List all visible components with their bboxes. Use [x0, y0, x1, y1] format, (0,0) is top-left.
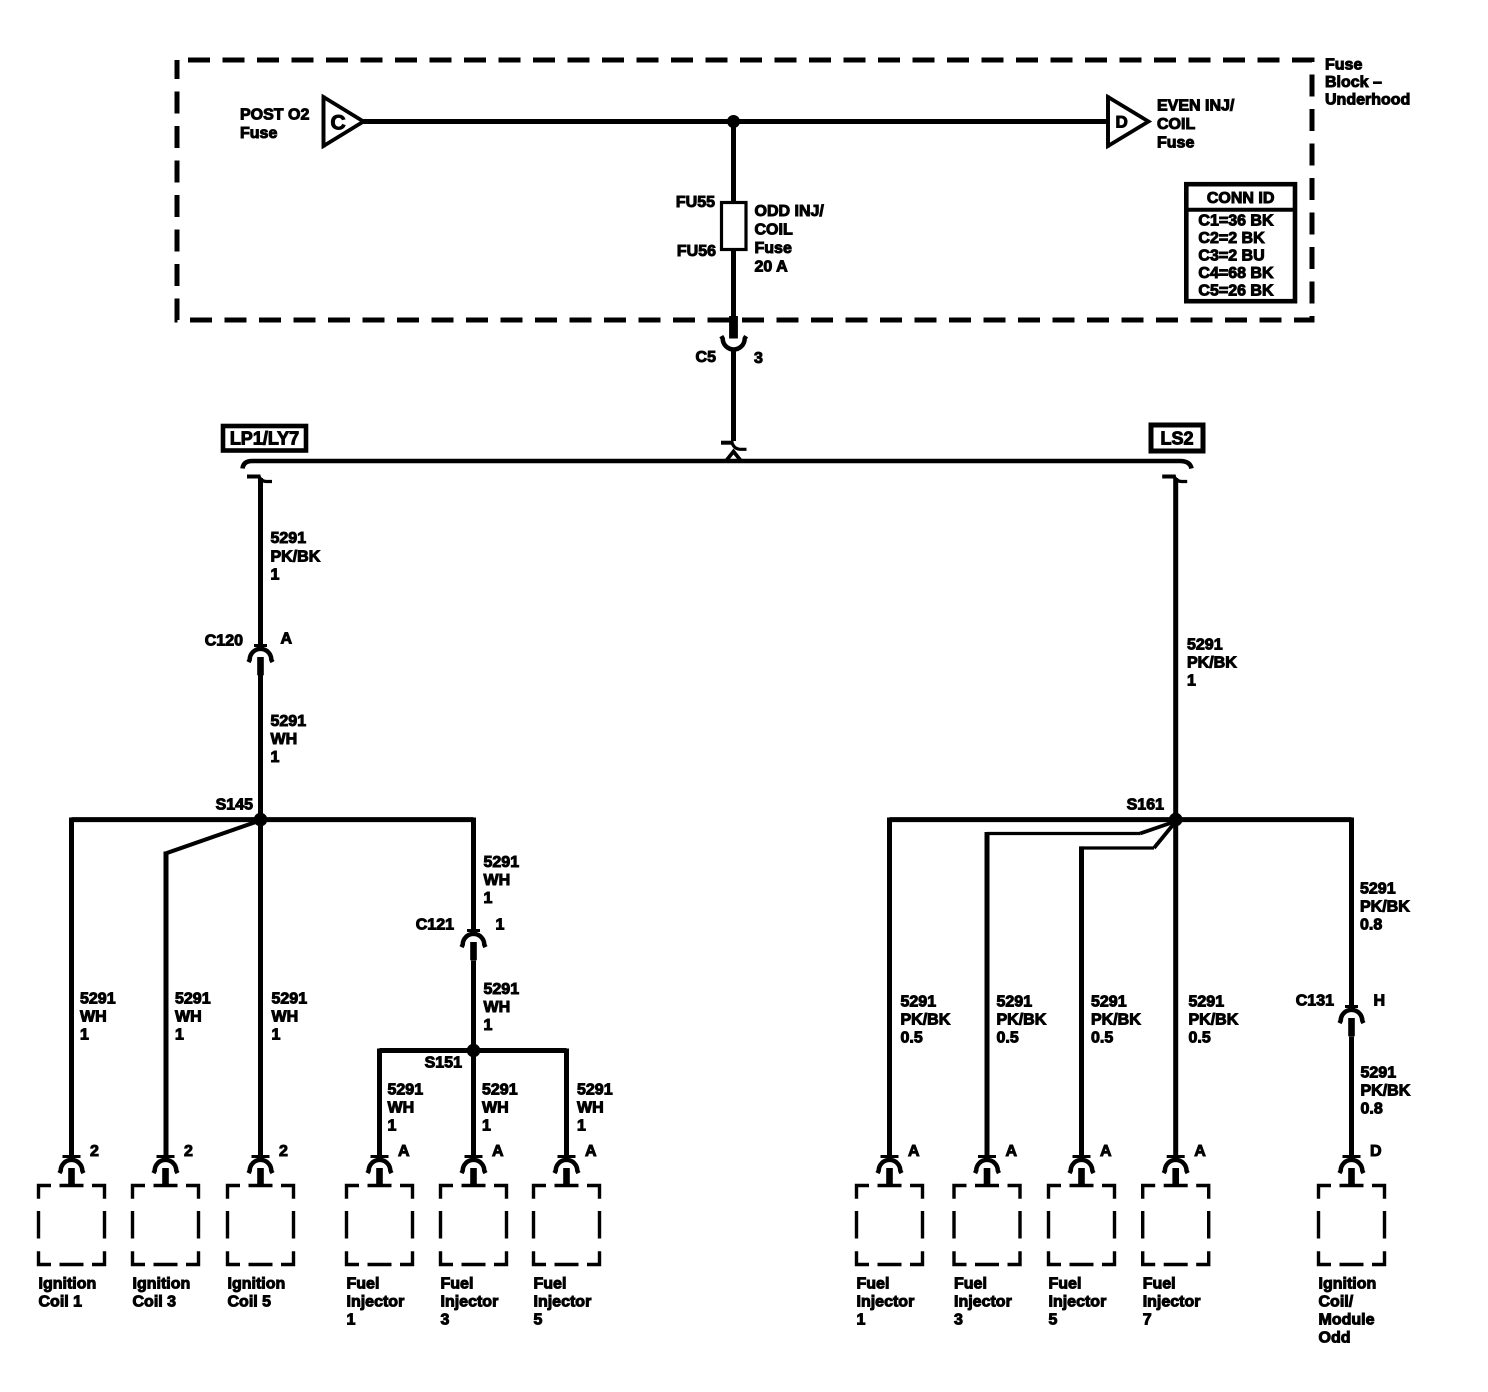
- label fuel injector 3 (left bank): [441, 1276, 499, 1329]
- connector C5 terminal 3: [721, 316, 746, 350]
- connector at ignition coil/module odd: [1340, 1157, 1364, 1187]
- svg-text:5291: 5291: [484, 854, 520, 871]
- svg-text:C3=2 BU: C3=2 BU: [1198, 248, 1264, 265]
- svg-text:FU56: FU56: [677, 243, 716, 260]
- wire: S161 diagonal to fuel injector 5 branch: [1154, 823, 1175, 848]
- svg-text:Underhood: Underhood: [1325, 92, 1410, 109]
- svg-text:LS2: LS2: [1160, 429, 1193, 449]
- label fuel injector 7 (right bank): [1143, 1276, 1201, 1329]
- svg-text:Coil 1: Coil 1: [39, 1294, 83, 1311]
- wire: S161 horizontal to fuel injector 1: [890, 817, 1176, 822]
- svg-text:1: 1: [80, 1026, 89, 1043]
- svg-text:5291: 5291: [272, 990, 308, 1007]
- wire label 5291 PK/BK 0.5: [1091, 994, 1141, 1047]
- svg-text:CONN ID: CONN ID: [1207, 190, 1275, 207]
- svg-text:Fuel: Fuel: [534, 1276, 567, 1293]
- svg-text:Injector: Injector: [954, 1294, 1012, 1311]
- svg-text:A: A: [585, 1143, 597, 1160]
- wire: fuse FU56 to connector C5: [731, 250, 736, 317]
- svg-text:A: A: [1006, 1143, 1018, 1160]
- wire: S161 diagonal to fuel injector 3 branch: [1140, 822, 1174, 834]
- svg-text:PK/BK: PK/BK: [1361, 1083, 1411, 1100]
- wire label 5291 WH 1: [271, 713, 307, 766]
- svg-text:Injector: Injector: [857, 1294, 915, 1311]
- svg-text:Odd: Odd: [1319, 1330, 1351, 1347]
- wire: C131 to ignition coil/module odd (5291 PK/BK): [1349, 1037, 1354, 1157]
- wire: S145 to ignition coil 1: [69, 818, 74, 1157]
- svg-text:1: 1: [496, 916, 505, 933]
- wire: S151 to fuel injector 5: [564, 1049, 569, 1157]
- svg-text:1: 1: [484, 1017, 493, 1034]
- component box ignition coil 3: [133, 1184, 199, 1266]
- wire label 5291 WH 1: [482, 1082, 518, 1135]
- svg-text:S145: S145: [216, 797, 253, 814]
- label fuel injector 1 (left bank): [347, 1276, 405, 1329]
- wire: C5 down to engine harness bus: [731, 352, 736, 442]
- svg-text:Ignition: Ignition: [133, 1276, 191, 1293]
- svg-text:3: 3: [441, 1312, 450, 1329]
- wire: down to fuel injector 1: [887, 818, 892, 1157]
- svg-text:0.8: 0.8: [1361, 1101, 1383, 1118]
- CONN ID table: [1186, 184, 1295, 301]
- svg-text:Coil 3: Coil 3: [133, 1294, 177, 1311]
- svg-text:Module: Module: [1319, 1312, 1375, 1329]
- label ignition coil/module odd: [1319, 1276, 1377, 1347]
- svg-text:0.5: 0.5: [1091, 1030, 1113, 1047]
- svg-text:Injector: Injector: [441, 1294, 499, 1311]
- svg-text:20 A: 20 A: [755, 259, 789, 276]
- svg-text:1: 1: [175, 1026, 184, 1043]
- wire: S145 horizontal bar: [72, 817, 474, 822]
- svg-text:5291: 5291: [1091, 994, 1127, 1011]
- wire: S161 to fuel injector 7: [1173, 820, 1178, 1156]
- component box fuel injector 1 (left bank): [347, 1184, 413, 1266]
- label ignition coil 3: [133, 1276, 191, 1311]
- svg-text:1: 1: [484, 890, 493, 907]
- wire label 5291 WH 1: [175, 990, 211, 1043]
- component box ignition coil/module odd: [1319, 1184, 1385, 1266]
- svg-text:1: 1: [272, 1026, 281, 1043]
- svg-text:5291: 5291: [1187, 637, 1223, 654]
- svg-text:A: A: [908, 1143, 920, 1160]
- svg-text:C131: C131: [1296, 993, 1334, 1010]
- svg-text:Fuel: Fuel: [1049, 1276, 1082, 1293]
- svg-text:COIL: COIL: [1157, 116, 1195, 133]
- wire label 5291 PK/BK 0.8: [1360, 881, 1410, 934]
- svg-text:1: 1: [271, 567, 280, 584]
- component box fuel injector 5 (left bank): [534, 1184, 600, 1266]
- component box fuel injector 1 (right bank): [857, 1184, 923, 1266]
- component box ignition coil 1: [39, 1184, 105, 1266]
- connector at fuel injector 1 (right bank): [878, 1157, 902, 1187]
- svg-text:PK/BK: PK/BK: [1091, 1012, 1141, 1029]
- svg-text:A: A: [1194, 1143, 1206, 1160]
- wire: S161 horizontal to ignition coil/module odd: [1176, 817, 1352, 822]
- svg-text:Fuel: Fuel: [1143, 1276, 1176, 1293]
- svg-text:2: 2: [279, 1143, 288, 1160]
- splice S151: [467, 1044, 481, 1058]
- wire: engine bus LP1/LY7 to LS2: [243, 461, 1192, 469]
- fuse FU55/FU56 (ODD INJ/COIL Fuse 20 A): [722, 203, 747, 250]
- component box fuel injector 7 (right bank): [1143, 1184, 1209, 1266]
- connector at fuel injector 5 (left bank): [555, 1157, 579, 1187]
- svg-text:5291: 5291: [1189, 994, 1225, 1011]
- svg-text:Coil 5: Coil 5: [228, 1294, 272, 1311]
- wire label 5291 WH 1: [484, 854, 520, 907]
- svg-text:PK/BK: PK/BK: [1187, 655, 1237, 672]
- svg-text:H: H: [1374, 993, 1386, 1010]
- svg-text:2: 2: [184, 1143, 193, 1160]
- attachment symbol at top of LS2 branch wire: [1162, 475, 1187, 482]
- svg-text:1: 1: [388, 1118, 397, 1135]
- wire label 5291 PK/BK 1: [1187, 637, 1237, 690]
- wire label 5291 PK/BK 0.5: [997, 994, 1047, 1047]
- svg-text:WH: WH: [175, 1008, 202, 1025]
- splice S145: [254, 813, 268, 827]
- connector C121 terminal 1: [462, 931, 486, 961]
- wire: down to fuel injector 3: [985, 832, 990, 1156]
- wire: S145 diagonal to ignition coil 3 branch: [166, 821, 259, 853]
- label fuel injector 3 (right bank): [954, 1276, 1012, 1329]
- wire label 5291 WH 1: [272, 990, 308, 1043]
- svg-text:Coil/: Coil/: [1319, 1294, 1354, 1311]
- svg-text:Block –: Block –: [1325, 74, 1382, 91]
- svg-text:C2=2 BK: C2=2 BK: [1198, 230, 1265, 247]
- connector at fuel injector 3 (left bank): [462, 1157, 486, 1187]
- svg-text:Injector: Injector: [347, 1294, 405, 1311]
- svg-text:Fuel: Fuel: [347, 1276, 380, 1293]
- svg-text:WH: WH: [271, 731, 298, 748]
- svg-text:5291: 5291: [271, 713, 307, 730]
- svg-text:5291: 5291: [388, 1082, 424, 1099]
- harness tag LS2: [1151, 425, 1203, 451]
- svg-text:C5: C5: [696, 349, 717, 366]
- svg-text:PK/BK: PK/BK: [997, 1012, 1047, 1029]
- svg-text:S161: S161: [1127, 797, 1164, 814]
- svg-text:Injector: Injector: [1143, 1294, 1201, 1311]
- svg-text:5291: 5291: [1361, 1065, 1397, 1082]
- wire: down to fuel injector 5: [1079, 846, 1084, 1156]
- wire label 5291 WH 1: [484, 981, 520, 1034]
- label EVEN INJ/COIL Fuse: [1157, 97, 1235, 151]
- svg-text:1: 1: [271, 749, 280, 766]
- svg-text:5291: 5291: [271, 530, 307, 547]
- wire: horizontal to fuel injector 3: [987, 832, 1140, 835]
- svg-text:Fuel: Fuel: [954, 1276, 987, 1293]
- svg-text:Fuel: Fuel: [441, 1276, 474, 1293]
- svg-text:PK/BK: PK/BK: [271, 549, 321, 566]
- component box fuel injector 3 (right bank): [954, 1184, 1020, 1266]
- wire: bus to C120 (5291 PK/BK): [258, 478, 263, 646]
- svg-text:7: 7: [1143, 1312, 1152, 1329]
- wire: S145 to connector C121 (5291 WH): [471, 818, 476, 931]
- svg-text:A: A: [281, 631, 293, 648]
- wire: down to connector C131 (5291 PK/BK): [1349, 818, 1354, 1007]
- svg-text:C4=68 BK: C4=68 BK: [1198, 265, 1274, 282]
- svg-text:1: 1: [482, 1118, 491, 1135]
- svg-text:WH: WH: [577, 1100, 604, 1117]
- label ignition coil 1: [39, 1276, 97, 1311]
- connector at ignition coil 3: [154, 1157, 178, 1187]
- svg-text:0.5: 0.5: [1189, 1030, 1211, 1047]
- svg-text:WH: WH: [482, 1100, 509, 1117]
- svg-text:A: A: [492, 1143, 504, 1160]
- svg-text:5291: 5291: [1360, 881, 1396, 898]
- svg-text:PK/BK: PK/BK: [1189, 1012, 1239, 1029]
- svg-text:5: 5: [534, 1312, 543, 1329]
- svg-text:COIL: COIL: [755, 222, 793, 239]
- svg-text:Fuse: Fuse: [1325, 57, 1362, 74]
- svg-text:Fuse: Fuse: [240, 125, 277, 142]
- svg-text:Injector: Injector: [1049, 1294, 1107, 1311]
- component box fuel injector 3 (left bank): [441, 1184, 507, 1266]
- svg-text:Ignition: Ignition: [1319, 1276, 1377, 1293]
- svg-text:1: 1: [347, 1312, 356, 1329]
- svg-text:5291: 5291: [175, 990, 211, 1007]
- connector triangle C (POST O2 fuse feed): [324, 96, 364, 148]
- label fuel injector 5 (right bank): [1049, 1276, 1107, 1329]
- svg-text:3: 3: [954, 1312, 963, 1329]
- svg-text:Ignition: Ignition: [228, 1276, 286, 1293]
- svg-text:A: A: [1100, 1143, 1112, 1160]
- svg-text:A: A: [398, 1143, 410, 1160]
- wire label 5291 PK/BK 0.5: [901, 994, 951, 1047]
- svg-text:5291: 5291: [901, 994, 937, 1011]
- connector triangle D (EVEN INJ/COIL fuse feed): [1108, 96, 1149, 148]
- connector at ignition coil 1: [60, 1157, 84, 1187]
- component box ignition coil 5: [228, 1184, 294, 1266]
- wire: junction down to fuse FU55: [731, 122, 736, 203]
- wire: C120 to splice S145 (5291 WH): [258, 673, 263, 820]
- wire: S151 to fuel injector 3: [471, 1051, 476, 1157]
- svg-text:PK/BK: PK/BK: [1360, 899, 1410, 916]
- svg-text:5291: 5291: [484, 981, 520, 998]
- attachment symbol at top of LP1/LY7 branch wire: [247, 475, 272, 482]
- svg-text:2: 2: [90, 1143, 99, 1160]
- svg-text:D: D: [1116, 113, 1128, 132]
- wire: triangle C to triangle D: [364, 119, 1109, 124]
- svg-text:Fuse: Fuse: [755, 240, 792, 257]
- svg-text:1: 1: [1187, 673, 1196, 690]
- svg-text:C1=36 BK: C1=36 BK: [1198, 213, 1274, 230]
- harness tag LP1/LY7: [223, 426, 306, 451]
- connector C131 terminal H: [1340, 1007, 1364, 1037]
- svg-text:0.5: 0.5: [901, 1030, 923, 1047]
- bus attachment caret: [726, 452, 742, 462]
- label ODD INJ/COIL Fuse 20 A: [755, 203, 825, 276]
- svg-text:Injector: Injector: [534, 1294, 592, 1311]
- svg-text:1: 1: [857, 1312, 866, 1329]
- svg-text:0.8: 0.8: [1360, 917, 1382, 934]
- svg-text:0.5: 0.5: [997, 1030, 1019, 1047]
- svg-text:5291: 5291: [577, 1082, 613, 1099]
- wire: horizontal to fuel injector 5: [1082, 846, 1155, 849]
- svg-text:5291: 5291: [482, 1082, 518, 1099]
- junction node above FU55: [727, 115, 740, 128]
- svg-text:WH: WH: [80, 1008, 107, 1025]
- connector at fuel injector 1 (left bank): [368, 1157, 392, 1187]
- wire label 5291 PK/BK 0.5: [1189, 994, 1239, 1047]
- svg-text:WH: WH: [484, 999, 511, 1016]
- connector at ignition coil 5: [249, 1157, 273, 1187]
- svg-text:Ignition: Ignition: [39, 1276, 97, 1293]
- wire: S145 to ignition coil 5: [258, 820, 263, 1156]
- svg-text:D: D: [1370, 1143, 1382, 1160]
- svg-text:PK/BK: PK/BK: [901, 1012, 951, 1029]
- wire end hook at bus: [721, 441, 747, 449]
- connector at fuel injector 3 (right bank): [975, 1157, 999, 1187]
- wire label 5291 WH 1: [577, 1082, 613, 1135]
- wire: down to ignition coil 3: [164, 852, 169, 1157]
- svg-text:C121: C121: [416, 916, 454, 933]
- wire label 5291 PK/BK 0.8: [1361, 1065, 1411, 1118]
- fuse block underhood dashed border: [177, 60, 1312, 320]
- connector at fuel injector 5 (right bank): [1070, 1157, 1094, 1187]
- wire: C121 to splice S151 (5291 WH): [471, 961, 476, 1051]
- svg-text:WH: WH: [484, 872, 511, 889]
- svg-text:1: 1: [577, 1118, 586, 1135]
- svg-text:ODD INJ/: ODD INJ/: [755, 203, 825, 220]
- svg-text:LP1/LY7: LP1/LY7: [230, 429, 299, 449]
- component box fuel injector 5 (right bank): [1049, 1184, 1115, 1266]
- wire: S151 to fuel injector 1: [377, 1049, 382, 1157]
- label ignition coil 5: [228, 1276, 286, 1311]
- connector C120 terminal A: [249, 646, 273, 676]
- svg-text:S151: S151: [425, 1055, 462, 1072]
- svg-text:FU55: FU55: [676, 194, 715, 211]
- svg-text:WH: WH: [272, 1008, 299, 1025]
- label fuel injector 1 (right bank): [857, 1276, 915, 1329]
- svg-text:5291: 5291: [997, 994, 1033, 1011]
- wire: bus to splice S161 (5291 PK/BK): [1173, 478, 1178, 820]
- svg-text:5291: 5291: [80, 990, 116, 1007]
- splice S161: [1169, 813, 1183, 827]
- svg-text:WH: WH: [388, 1100, 415, 1117]
- label fuel injector 5 (left bank): [534, 1276, 592, 1329]
- wire: S151 horizontal bar: [380, 1048, 567, 1053]
- label Fuse Block - Underhood: [1325, 57, 1410, 109]
- svg-text:EVEN INJ/: EVEN INJ/: [1157, 97, 1235, 114]
- svg-text:Fuel: Fuel: [857, 1276, 890, 1293]
- svg-text:3: 3: [754, 350, 763, 367]
- connector at fuel injector 7 (right bank): [1164, 1157, 1188, 1187]
- label POST O2 Fuse: [240, 107, 309, 143]
- svg-text:POST O2: POST O2: [240, 107, 309, 124]
- wire label 5291 WH 1: [80, 990, 116, 1043]
- wire label 5291 WH 1: [388, 1082, 424, 1135]
- wire label 5291 PK/BK 1: [271, 530, 321, 584]
- svg-text:5: 5: [1049, 1312, 1058, 1329]
- svg-text:C: C: [331, 111, 346, 134]
- svg-text:C5=26 BK: C5=26 BK: [1198, 283, 1274, 300]
- svg-text:C120: C120: [205, 633, 243, 650]
- svg-text:Fuse: Fuse: [1157, 134, 1194, 151]
